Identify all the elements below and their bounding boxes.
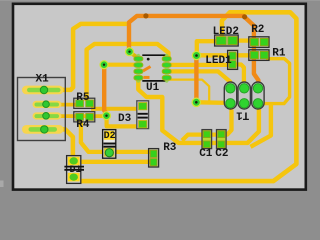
via B [102, 111, 111, 120]
wire net21: C1 top / C2 top to T1 pad1 lower [182, 110, 232, 141]
via D [192, 51, 202, 61]
connector X1 pad4 [22, 125, 64, 134]
capacitor C1 [202, 130, 212, 149]
svg-text:R5: R5 [76, 92, 90, 104]
op-amp U1 left pads [136, 54, 141, 83]
wire net3: X1 pad3 to R4 and via B [59, 114, 104, 118]
resistor R2 [249, 37, 269, 48]
wire net19: U1 pin L4 down around to C row and T1 pad3 lower [138, 78, 259, 143]
resistor R4 [74, 112, 95, 122]
op-amp U1 outline top bar [142, 54, 166, 56]
via E [192, 98, 202, 108]
wire orange3: via D down to via E [194, 58, 198, 100]
op-amp U1 outline bottom bar [142, 80, 166, 82]
wire net18: via E to T1 pad1 lower hole [199, 100, 226, 105]
wire net1: X1 pad1 up and across (yellow) [58, 24, 127, 90]
svg-text:D1: D1 [70, 165, 82, 176]
outer frame shade top [0, 0, 320, 1]
connector X1 pad2 [33, 101, 62, 108]
wire net5: R5 right pad up across to U1 pin R1 [87, 44, 169, 101]
wire net14: U1 pin R2 to LED1 bottom [171, 63, 230, 67]
wire net2: X1 pad2 to R5 left [59, 103, 77, 107]
svg-text:R4: R4 [76, 119, 90, 131]
connector X1 outline [18, 78, 66, 141]
svg-text:R3: R3 [163, 142, 177, 154]
svg-text:R2: R2 [251, 24, 264, 36]
svg-text:U1: U1 [146, 82, 160, 94]
LED D1 (LED1) pads [228, 50, 238, 69]
wire net11: LED2 right to R2 left [235, 38, 251, 42]
svg-text:LED1: LED1 [205, 55, 232, 67]
capacitor C2 [217, 130, 227, 149]
wire net25: T1 pad2 inner arc [245, 91, 248, 103]
wire net17: thin U1 pin R4 down to via E horizontal [168, 80, 210, 101]
via C [125, 47, 134, 56]
board outline border [13, 4, 306, 190]
svg-text:C2: C2 [215, 148, 228, 160]
svg-text:T1: T1 [236, 108, 250, 120]
resistor R1 [249, 50, 269, 61]
diode D1 [64, 156, 84, 184]
wire net4: X1 pad4 down to D1 top [58, 129, 73, 158]
via hole dark on orange top rail right [242, 14, 247, 19]
wire net13: R1 right down to T1 pad3 lower hole [261, 59, 290, 104]
svg-text:D3: D3 [118, 113, 132, 125]
resistor R3 [149, 149, 159, 167]
op-amp U1 right pads [164, 54, 169, 83]
via hole dark on orange top rail left [143, 13, 148, 18]
wire net20: T1 pad3 lower down-left stub [251, 105, 271, 147]
svg-text:C1: C1 [199, 148, 213, 160]
diode D2 [103, 130, 116, 159]
svg-text:X1: X1 [36, 73, 50, 85]
resistor R5 [74, 98, 95, 108]
transistor T1 pad slot 1 [224, 82, 236, 109]
wire net12: via D through LED1 top to R1 left [198, 53, 252, 57]
LED D2 (LED2) pads [215, 35, 239, 46]
svg-text:D2: D2 [104, 131, 116, 142]
wire net22: via A to U1 pin L2 [106, 63, 135, 67]
svg-text:R1: R1 [272, 47, 286, 59]
wire net9: big frame D1 bottom right-side loop to LED2 left [77, 12, 296, 181]
wire net8: D1 top to R3 bottom [76, 160, 150, 164]
wire net24: via B down and right to D3 bottom [107, 119, 141, 126]
wire net10: via D up to LED2 left pad [197, 41, 217, 52]
wire net7: R4 left down to D2 bottom and R3 top [81, 121, 150, 152]
wire net23: via C diagonal to U1 pin L1 [130, 53, 137, 58]
outer frame notch bottom-left [0, 181, 4, 188]
connector X1 pad1 [22, 86, 64, 95]
wire net16: U1 pin R3 to T1 pad1 upper hole [171, 71, 230, 87]
transistor T1 pad slot 2 [238, 82, 250, 109]
wire orange2: via C up across top to R2 and down to T1 pad3 [129, 16, 258, 85]
wire net6: R5 right to D3 top [91, 107, 141, 111]
transistor T1 pad slot 3 [252, 82, 264, 109]
wire orange1: via A down to via B [104, 67, 106, 114]
wire orange4: U1 inner stub pin L3 [143, 67, 151, 71]
diode D3 [137, 101, 149, 129]
via A [99, 60, 108, 69]
op-amp U1 pin1 dot [147, 58, 150, 61]
wire net15: LED1 bottom right down to T1 pad2 upper hole [236, 65, 244, 86]
svg-text:LED2: LED2 [213, 26, 239, 38]
connector X1 pad3 [33, 112, 62, 119]
wire orange5: U1 inner stub pin L4 [144, 76, 150, 79]
